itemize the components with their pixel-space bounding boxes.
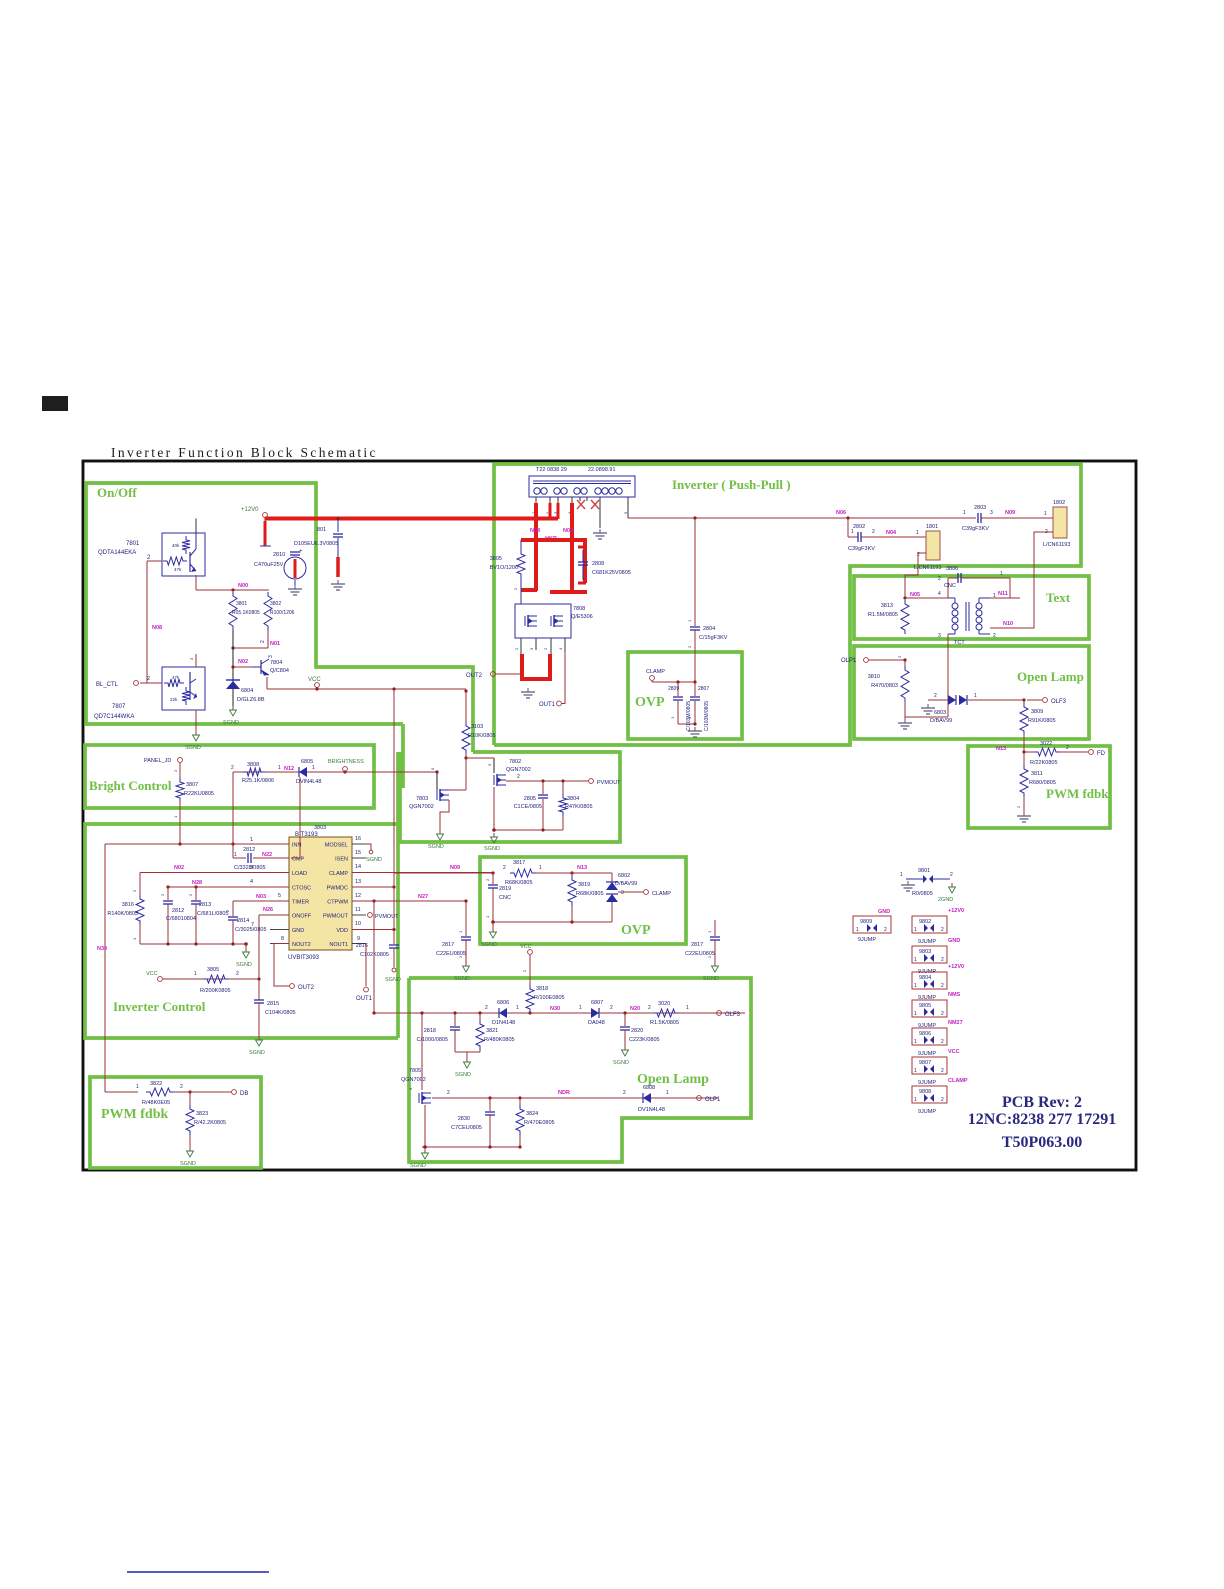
svg-text:22.0898.91: 22.0898.91 <box>588 467 616 473</box>
svg-text:9801: 9801 <box>918 868 930 874</box>
svg-text:3811: 3811 <box>1031 771 1043 777</box>
svg-text:LOAD: LOAD <box>292 871 307 877</box>
svg-text:R10K/0805: R10K/0805 <box>468 733 496 739</box>
svg-text:1: 1 <box>856 927 859 933</box>
svg-text:PWM fdbk: PWM fdbk <box>1046 786 1109 801</box>
svg-text:+12V0: +12V0 <box>948 908 964 914</box>
svg-text:C681K25V0805: C681K25V0805 <box>592 570 631 576</box>
svg-text:7802: 7802 <box>509 759 521 765</box>
svg-text:2805: 2805 <box>524 796 536 802</box>
svg-text:10: 10 <box>355 921 361 927</box>
svg-text:C/3328/0805: C/3328/0805 <box>234 865 266 871</box>
svg-text:2: 2 <box>941 1068 944 1074</box>
svg-text:Q/C804: Q/C804 <box>270 668 289 674</box>
svg-text:2820: 2820 <box>631 1028 643 1034</box>
svg-text:N13: N13 <box>577 865 587 871</box>
svg-text:1: 1 <box>194 971 197 977</box>
svg-text:1: 1 <box>250 837 253 843</box>
svg-text:3020: 3020 <box>658 1001 670 1007</box>
svg-text:N09: N09 <box>563 528 573 534</box>
svg-text:8: 8 <box>281 936 284 942</box>
svg-text:C1CE/0805: C1CE/0805 <box>514 804 542 810</box>
svg-text:R140K/0805: R140K/0805 <box>107 911 138 917</box>
svg-text:C/103M/0805: C/103M/0805 <box>686 701 692 731</box>
svg-text:C223K/0805: C223K/0805 <box>629 1037 660 1043</box>
svg-text:SGND: SGND <box>410 1163 426 1169</box>
svg-text:PWMDC: PWMDC <box>327 886 348 892</box>
svg-text:CNC: CNC <box>499 895 511 901</box>
svg-text:R1.5M/0805: R1.5M/0805 <box>868 612 898 618</box>
svg-text:SGND: SGND <box>180 1161 196 1167</box>
svg-text:2812: 2812 <box>243 847 255 853</box>
svg-text:4: 4 <box>938 591 941 597</box>
svg-text:CLAMP: CLAMP <box>948 1078 968 1084</box>
svg-text:OUT1: OUT1 <box>539 702 556 708</box>
svg-text:3816: 3816 <box>122 902 134 908</box>
svg-text:1: 1 <box>234 852 237 858</box>
svg-text:On/Off: On/Off <box>97 485 137 500</box>
svg-text:1: 1 <box>914 1039 917 1045</box>
svg-text:ONOFF: ONOFF <box>292 914 312 920</box>
svg-text:OUT2: OUT2 <box>466 673 483 679</box>
svg-text:PWMOUT: PWMOUT <box>323 914 349 920</box>
svg-text:C39gF3KV: C39gF3KV <box>962 526 989 532</box>
svg-text:UVBIT3093: UVBIT3093 <box>288 955 320 961</box>
svg-text:CLAMP: CLAMP <box>329 871 348 877</box>
svg-text:3803: 3803 <box>314 825 326 831</box>
svg-text:2: 2 <box>648 1005 651 1011</box>
svg-text:2: 2 <box>447 1090 450 1096</box>
svg-text:QGN7002: QGN7002 <box>506 767 531 773</box>
svg-text:7804: 7804 <box>270 660 282 666</box>
svg-text:3813: 3813 <box>881 603 893 609</box>
svg-text:QGN7002: QGN7002 <box>401 1077 426 1083</box>
svg-text:9JUMP: 9JUMP <box>918 1109 936 1115</box>
svg-text:2: 2 <box>872 529 875 535</box>
svg-text:801: 801 <box>317 527 326 533</box>
svg-text:1: 1 <box>914 983 917 989</box>
svg-text:12NC:8238 277 17291: 12NC:8238 277 17291 <box>968 1111 1116 1128</box>
svg-text:2: 2 <box>623 1090 626 1096</box>
svg-text:C470uF25V: C470uF25V <box>254 562 284 568</box>
svg-text:1: 1 <box>312 765 315 771</box>
svg-text:2804: 2804 <box>703 626 715 632</box>
svg-text:40k: 40k <box>172 543 180 548</box>
svg-text:9JUMP: 9JUMP <box>858 937 876 943</box>
svg-text:NDR: NDR <box>558 1090 570 1096</box>
svg-text:3818: 3818 <box>536 986 548 992</box>
svg-text:1: 1 <box>914 927 917 933</box>
svg-text:2: 2 <box>941 1039 944 1045</box>
svg-text:2812: 2812 <box>172 908 184 914</box>
svg-text:TIMER: TIMER <box>292 900 309 906</box>
svg-text:R47K/0805: R47K/0805 <box>565 804 593 810</box>
svg-text:N10: N10 <box>1003 621 1013 627</box>
svg-text:SGND: SGND <box>481 942 497 948</box>
svg-text:R/42.2K0805: R/42.2K0805 <box>194 1120 226 1126</box>
svg-text:5: 5 <box>278 893 281 899</box>
svg-text:D/BAV99: D/BAV99 <box>930 718 952 724</box>
svg-text:GND: GND <box>292 928 304 934</box>
svg-text:OVP: OVP <box>635 695 665 710</box>
svg-text:QD7C144WKA: QD7C144WKA <box>94 714 134 720</box>
svg-text:R0/0805: R0/0805 <box>912 891 933 897</box>
svg-text:2: 2 <box>485 1005 488 1011</box>
svg-text:+12V0: +12V0 <box>241 507 259 513</box>
svg-text:9806: 9806 <box>919 1031 931 1037</box>
svg-text:2: 2 <box>260 640 266 643</box>
svg-text:2813: 2813 <box>199 902 211 908</box>
svg-text:6807: 6807 <box>591 1000 603 1006</box>
svg-text:3810: 3810 <box>868 674 880 680</box>
svg-text:CNC: CNC <box>944 583 956 589</box>
svg-text:N27: N27 <box>418 894 428 900</box>
svg-text:2: 2 <box>231 765 234 771</box>
svg-text:9JUMP: 9JUMP <box>918 1080 936 1086</box>
svg-text:9804: 9804 <box>919 975 931 981</box>
svg-text:R68K/0805: R68K/0805 <box>505 880 533 886</box>
svg-text:7808: 7808 <box>573 606 585 612</box>
svg-text:2819: 2819 <box>499 886 511 892</box>
svg-text:1: 1 <box>914 1011 917 1017</box>
svg-text:6806: 6806 <box>497 1000 509 1006</box>
svg-text:R/48K0E05: R/48K0E05 <box>142 1100 170 1106</box>
svg-text:+12V0: +12V0 <box>948 964 964 970</box>
svg-text:VCC: VCC <box>146 971 158 977</box>
svg-text:R22KU0805: R22KU0805 <box>184 791 214 797</box>
svg-text:15: 15 <box>355 850 361 856</box>
svg-text:VCC: VCC <box>308 677 321 683</box>
svg-text:DB: DB <box>240 1091 248 1097</box>
svg-text:SGND: SGND <box>428 844 444 850</box>
svg-text:14: 14 <box>355 864 361 870</box>
svg-text:FD: FD <box>1097 751 1106 757</box>
svg-text:N13: N13 <box>996 746 1006 752</box>
svg-text:N08: N08 <box>152 625 162 631</box>
svg-text:N28: N28 <box>192 880 202 886</box>
svg-text:VCC: VCC <box>520 944 532 950</box>
svg-text:SGND: SGND <box>236 962 252 968</box>
svg-text:N12: N12 <box>284 766 294 772</box>
svg-text:C/68010804: C/68010804 <box>166 916 196 922</box>
svg-text:2: 2 <box>938 576 941 582</box>
svg-text:BRIGHTNESS: BRIGHTNESS <box>328 759 364 765</box>
svg-text:N05: N05 <box>910 592 920 598</box>
svg-text:3804: 3804 <box>567 796 579 802</box>
svg-text:3: 3 <box>990 510 993 516</box>
svg-text:R/100E0805: R/100E0805 <box>534 995 565 1001</box>
svg-text:GND: GND <box>948 938 960 944</box>
svg-text:1: 1 <box>278 765 281 771</box>
svg-text:1: 1 <box>1000 571 1003 577</box>
svg-text:3022: 3022 <box>1040 741 1052 747</box>
svg-text:2810: 2810 <box>273 552 285 558</box>
svg-text:L/CN61193: L/CN61193 <box>1043 542 1070 548</box>
svg-text:16: 16 <box>355 836 361 842</box>
svg-text:2807: 2807 <box>698 686 709 692</box>
svg-text:1: 1 <box>963 510 966 516</box>
svg-text:9805: 9805 <box>919 1003 931 1009</box>
svg-text:1: 1 <box>914 1097 917 1103</box>
svg-text:BIT3193: BIT3193 <box>295 832 318 838</box>
svg-text:PANEL_JD: PANEL_JD <box>144 758 171 764</box>
svg-text:R/200K0805: R/200K0805 <box>200 988 231 994</box>
svg-text:N02: N02 <box>174 865 184 871</box>
svg-text:1: 1 <box>666 1090 669 1096</box>
svg-text:9803: 9803 <box>919 949 931 955</box>
svg-text:SGND: SGND <box>249 1050 265 1056</box>
svg-text:N04: N04 <box>886 530 897 536</box>
svg-text:3821: 3821 <box>486 1028 498 1034</box>
svg-text:N09: N09 <box>450 865 460 871</box>
svg-text:N30: N30 <box>550 1006 560 1012</box>
svg-text:C104K/0805: C104K/0805 <box>265 1010 296 1016</box>
svg-text:47k: 47k <box>174 567 182 572</box>
svg-text:SGND: SGND <box>185 745 201 751</box>
svg-text:1: 1 <box>900 872 903 878</box>
svg-text:OLF3: OLF3 <box>1051 699 1067 705</box>
svg-text:R680/0805: R680/0805 <box>1029 780 1056 786</box>
svg-text:Inverter ( Push-Pull ): Inverter ( Push-Pull ) <box>672 477 791 492</box>
svg-text:SGND: SGND <box>366 857 382 863</box>
svg-text:NOUT1: NOUT1 <box>329 942 348 948</box>
svg-text:R25.1K/0806: R25.1K/0806 <box>242 778 274 784</box>
svg-text:7805: 7805 <box>409 1068 421 1074</box>
svg-text:7803: 7803 <box>416 796 428 802</box>
svg-text:BV1O/1206: BV1O/1206 <box>490 565 518 571</box>
svg-text:2: 2 <box>610 1005 613 1011</box>
svg-text:PWM fdbk: PWM fdbk <box>101 1107 169 1122</box>
svg-text:Text: Text <box>1046 590 1071 605</box>
svg-text:9: 9 <box>357 936 360 942</box>
svg-text:1802: 1802 <box>1053 500 1065 506</box>
svg-text:SGND: SGND <box>454 976 470 982</box>
svg-text:BL_CTL: BL_CTL <box>96 682 119 688</box>
svg-text:2830: 2830 <box>458 1116 470 1122</box>
svg-text:Bright Control: Bright Control <box>89 778 172 793</box>
svg-text:2: 2 <box>236 971 239 977</box>
svg-text:R/470E0805: R/470E0805 <box>524 1120 555 1126</box>
svg-text:1: 1 <box>914 1068 917 1074</box>
svg-text:2: 2 <box>941 957 944 963</box>
svg-text:6802: 6802 <box>618 873 630 879</box>
svg-text:N09: N09 <box>1005 510 1015 516</box>
svg-text:2803: 2803 <box>974 505 986 511</box>
svg-text:1: 1 <box>136 1084 139 1090</box>
svg-text:9809: 9809 <box>860 919 872 925</box>
svg-text:1: 1 <box>914 957 917 963</box>
svg-text:3802: 3802 <box>270 601 281 607</box>
svg-text:3817: 3817 <box>513 860 525 866</box>
svg-text:2GND: 2GND <box>938 897 953 903</box>
svg-text:7801: 7801 <box>126 541 140 547</box>
svg-text:PCB Rev: 2: PCB Rev: 2 <box>1002 1094 1082 1111</box>
svg-text:2: 2 <box>941 1011 944 1017</box>
svg-text:OLF3: OLF3 <box>725 1012 741 1018</box>
svg-text:C39gF3KV: C39gF3KV <box>848 546 875 552</box>
svg-text:2815: 2815 <box>267 1001 279 1007</box>
svg-text:3: 3 <box>268 655 274 658</box>
svg-text:2814: 2814 <box>237 918 249 924</box>
svg-text:OUT1: OUT1 <box>356 996 373 1002</box>
svg-text:6808: 6808 <box>643 1085 655 1091</box>
svg-text:DA048: DA048 <box>588 1020 605 1026</box>
svg-text:1: 1 <box>516 1005 519 1011</box>
svg-text:47k: 47k <box>172 675 180 680</box>
svg-text:D105EU6.3V0805: D105EU6.3V0805 <box>294 541 338 547</box>
svg-text:C/681L/0805: C/681L/0805 <box>197 911 229 917</box>
svg-text:12: 12 <box>355 893 361 899</box>
svg-text:2: 2 <box>503 865 506 871</box>
svg-text:9JUMP: 9JUMP <box>918 1051 936 1057</box>
svg-text:R91K/0805: R91K/0805 <box>1028 718 1056 724</box>
svg-text:9802: 9802 <box>919 919 931 925</box>
svg-text:1: 1 <box>539 865 542 871</box>
svg-text:Q/E5306: Q/E5306 <box>571 614 593 620</box>
svg-text:2: 2 <box>884 927 887 933</box>
svg-text:3805: 3805 <box>207 967 219 973</box>
svg-text:R68K/0805: R68K/0805 <box>576 891 604 897</box>
svg-text:TCT: TCT <box>954 640 965 646</box>
svg-text:2: 2 <box>941 1097 944 1103</box>
svg-text:N01: N01 <box>270 641 280 647</box>
svg-text:N22: N22 <box>262 852 272 858</box>
svg-text:1: 1 <box>974 693 977 699</box>
svg-text:CTOSC: CTOSC <box>292 886 311 892</box>
svg-text:D/BAV99: D/BAV99 <box>615 881 637 887</box>
svg-text:VDD: VDD <box>336 928 348 934</box>
svg-text:1: 1 <box>686 1005 689 1011</box>
svg-text:2: 2 <box>950 872 953 878</box>
svg-text:3807: 3807 <box>186 782 198 788</box>
svg-text:SGND: SGND <box>223 720 239 726</box>
svg-text:C/103M/0805: C/103M/0805 <box>704 701 710 731</box>
svg-text:3801: 3801 <box>236 601 247 607</box>
svg-text:9JUMP: 9JUMP <box>918 939 936 945</box>
svg-text:PVMOUT: PVMOUT <box>597 780 621 786</box>
svg-text:R05.1K0805: R05.1K0805 <box>232 610 260 616</box>
svg-text:6803: 6803 <box>934 710 946 716</box>
svg-text:1: 1 <box>1044 511 1047 517</box>
svg-text:Open Lamp: Open Lamp <box>1017 669 1084 684</box>
svg-text:2: 2 <box>941 983 944 989</box>
svg-text:NOUT2: NOUT2 <box>292 942 311 948</box>
svg-text:13: 13 <box>355 879 361 885</box>
svg-text:C7CEU0805: C7CEU0805 <box>451 1125 482 1131</box>
svg-text:NMS: NMS <box>948 992 961 998</box>
svg-text:OVP: OVP <box>621 923 651 938</box>
svg-text:2809: 2809 <box>668 686 679 692</box>
svg-text:4: 4 <box>250 879 253 885</box>
svg-text:2: 2 <box>934 693 937 699</box>
svg-text:DV1N4L48: DV1N4L48 <box>638 1107 665 1113</box>
svg-text:T50P063.00: T50P063.00 <box>1002 1134 1082 1151</box>
svg-text:N30: N30 <box>97 946 107 952</box>
svg-text:2808: 2808 <box>592 561 604 567</box>
svg-text:2: 2 <box>517 774 520 780</box>
svg-text:7807: 7807 <box>112 704 126 710</box>
svg-text:CMP: CMP <box>292 857 305 863</box>
svg-text:2: 2 <box>941 927 944 933</box>
svg-text:D/GLZ6.8B: D/GLZ6.8B <box>237 697 265 703</box>
svg-text:SGND: SGND <box>385 977 401 983</box>
svg-text:SGND: SGND <box>455 1072 471 1078</box>
svg-text:OUT2: OUT2 <box>298 985 315 991</box>
svg-text:Inverter Control: Inverter Control <box>113 999 206 1014</box>
svg-text:2817: 2817 <box>442 942 454 948</box>
svg-text:T22 0838 29: T22 0838 29 <box>536 467 567 473</box>
svg-text:CLAMP: CLAMP <box>652 891 671 897</box>
svg-text:N08: N08 <box>530 528 540 534</box>
svg-text:N06: N06 <box>836 510 846 516</box>
svg-text:Inverter Function Block Schema: Inverter Function Block Schematic <box>111 445 378 460</box>
svg-text:3822: 3822 <box>150 1081 162 1087</box>
svg-text:N20: N20 <box>630 1006 640 1012</box>
svg-text:C/15gF3KV: C/15gF3KV <box>699 635 728 641</box>
svg-text:9807: 9807 <box>919 1060 931 1066</box>
svg-text:3824: 3824 <box>526 1111 538 1117</box>
svg-text:SGND: SGND <box>613 1060 629 1066</box>
svg-text:OLP1: OLP1 <box>841 658 857 664</box>
svg-text:3: 3 <box>621 890 624 896</box>
svg-text:3103: 3103 <box>471 724 483 730</box>
svg-text:11: 11 <box>355 907 361 913</box>
svg-text:3809: 3809 <box>1031 709 1043 715</box>
svg-text:2: 2 <box>180 1084 183 1090</box>
svg-text:SGND: SGND <box>484 846 500 852</box>
svg-text:22k: 22k <box>170 697 178 702</box>
svg-text:N26: N26 <box>263 907 273 913</box>
svg-text:1: 1 <box>579 1005 582 1011</box>
svg-text:3823: 3823 <box>196 1111 208 1117</box>
svg-text:C/1000/0805: C/1000/0805 <box>417 1037 449 1043</box>
svg-text:3805: 3805 <box>490 556 502 562</box>
svg-text:QDTA144EKA: QDTA144EKA <box>98 550 136 556</box>
svg-text:3806: 3806 <box>946 566 958 572</box>
svg-text:2817: 2817 <box>691 942 703 948</box>
svg-text:9808: 9808 <box>919 1089 931 1095</box>
svg-text:CTPWM: CTPWM <box>327 900 348 906</box>
svg-text:R/480K0805: R/480K0805 <box>484 1037 515 1043</box>
svg-text:R470/0803: R470/0803 <box>871 683 898 689</box>
svg-text:2: 2 <box>993 633 996 639</box>
svg-text:QGN7002: QGN7002 <box>409 804 434 810</box>
svg-text:2: 2 <box>1066 745 1069 751</box>
svg-text:N02: N02 <box>238 659 248 665</box>
svg-text:N03: N03 <box>256 894 266 900</box>
svg-text:SGND: SGND <box>703 976 719 982</box>
svg-text:VCC: VCC <box>948 1049 960 1055</box>
svg-text:1: 1 <box>916 530 919 536</box>
svg-text:GND: GND <box>878 909 890 915</box>
svg-text:3819: 3819 <box>578 882 590 888</box>
svg-text:CLAMP: CLAMP <box>646 669 665 675</box>
svg-text:ISEN: ISEN <box>335 857 348 863</box>
svg-text:3: 3 <box>938 633 941 639</box>
svg-text:NM27: NM27 <box>948 1020 963 1026</box>
svg-text:R1.5K/0805: R1.5K/0805 <box>650 1020 679 1026</box>
svg-text:1801: 1801 <box>926 524 938 530</box>
svg-text:MODSEL: MODSEL <box>325 843 348 849</box>
svg-text:D1N4148: D1N4148 <box>492 1020 515 1026</box>
svg-text:C/3025/0805: C/3025/0805 <box>235 927 267 933</box>
svg-text:2818: 2818 <box>424 1028 436 1034</box>
svg-text:N00: N00 <box>238 583 248 589</box>
svg-text:N11: N11 <box>998 591 1008 597</box>
svg-text:R/22K0805: R/22K0805 <box>1030 760 1058 766</box>
svg-text:R100/1206: R100/1206 <box>270 610 295 616</box>
svg-text:6804: 6804 <box>241 688 253 694</box>
